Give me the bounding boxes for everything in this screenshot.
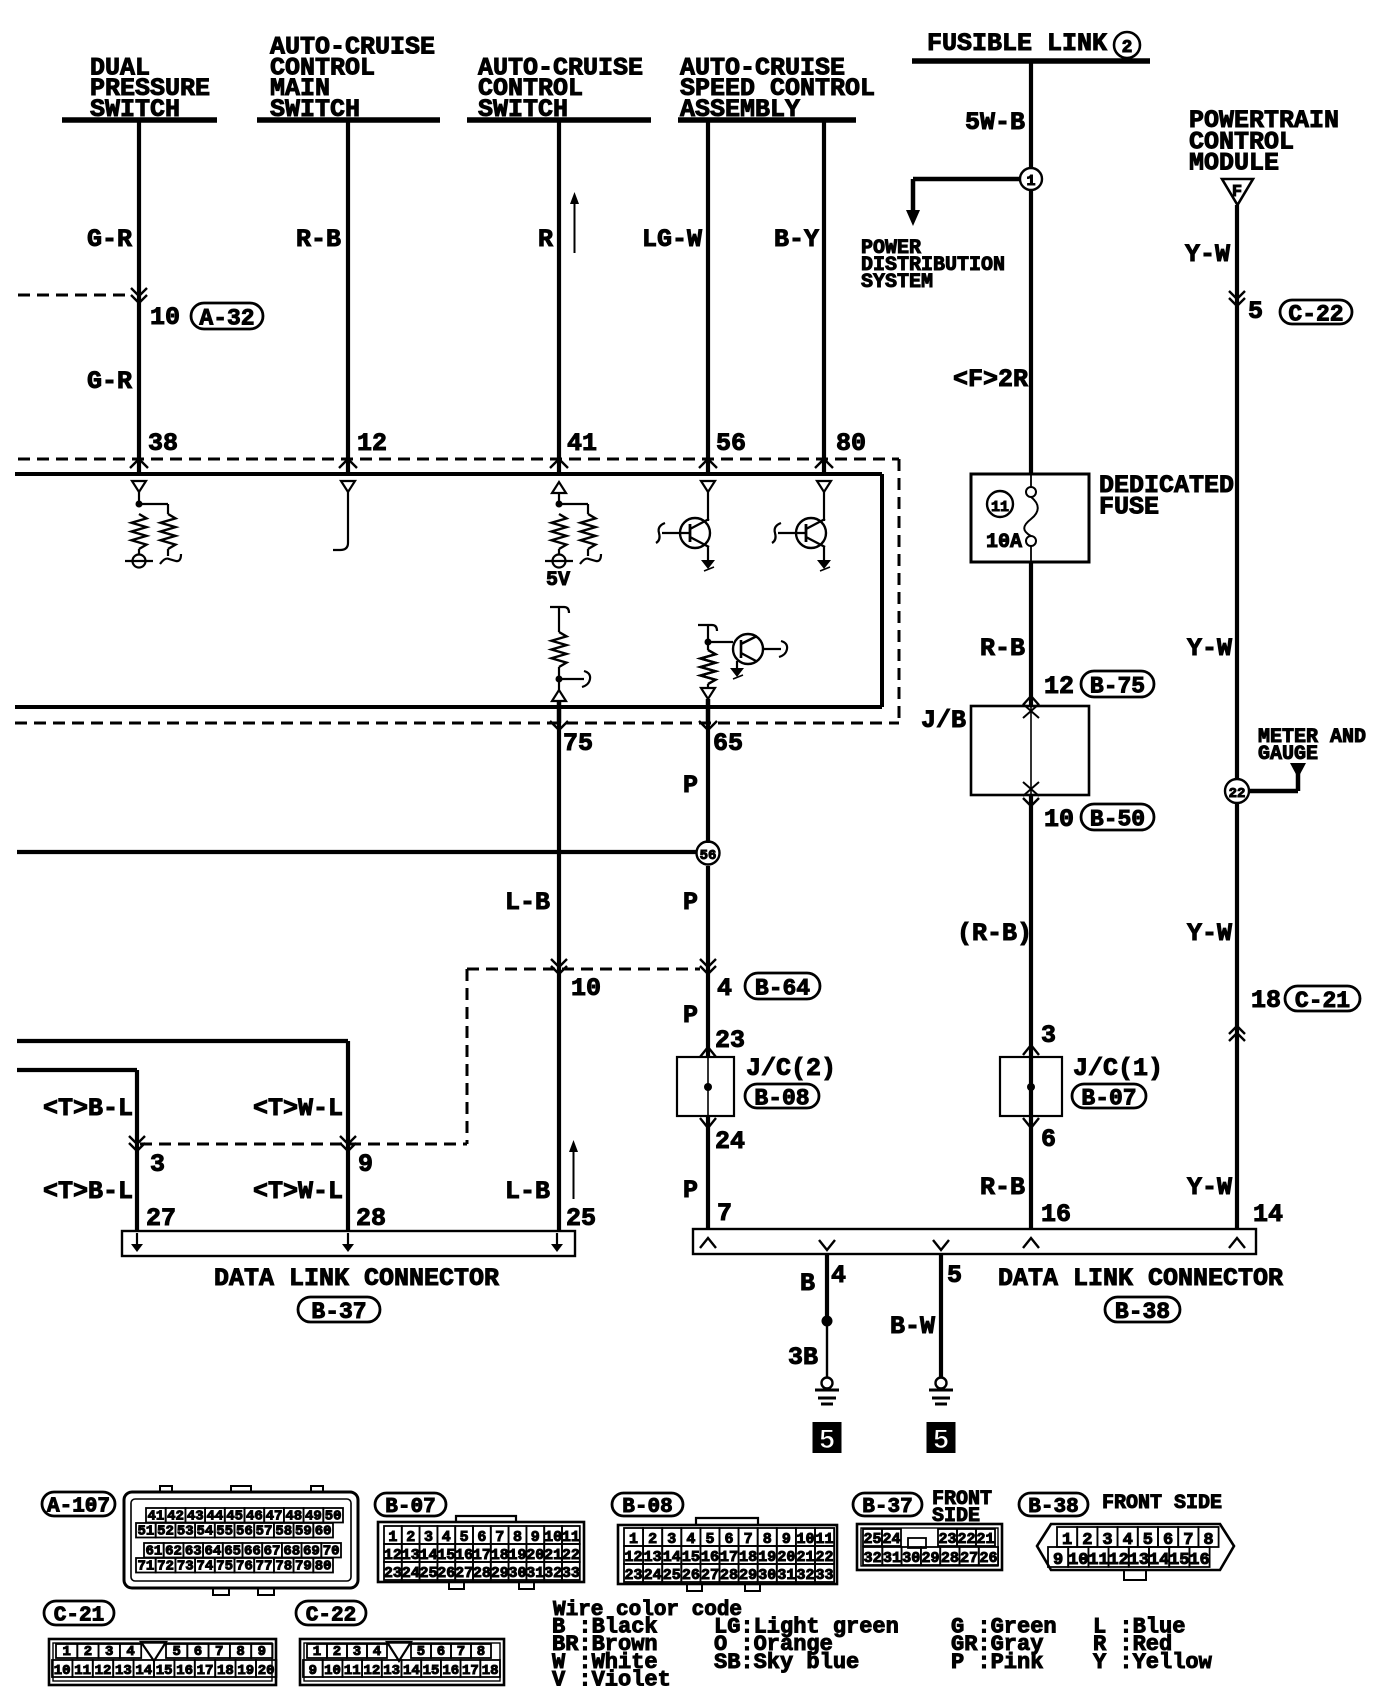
- svg-text:5V: 5V: [546, 569, 570, 592]
- svg-text:26: 26: [979, 1550, 997, 1567]
- svg-text:28: 28: [720, 1567, 738, 1584]
- svg-text:32: 32: [864, 1550, 882, 1567]
- svg-text:B-75: B-75: [1090, 673, 1145, 699]
- svg-text:15: 15: [1169, 1551, 1189, 1570]
- svg-text:71: 71: [137, 1559, 154, 1575]
- svg-text:80: 80: [315, 1559, 332, 1575]
- svg-text:A-32: A-32: [199, 305, 254, 331]
- svg-text:5W-B: 5W-B: [965, 108, 1025, 137]
- svg-text:R-B: R-B: [980, 1173, 1025, 1202]
- svg-text:28: 28: [473, 1565, 491, 1582]
- svg-text:<T>B-L: <T>B-L: [43, 1177, 133, 1206]
- svg-text:25: 25: [419, 1565, 437, 1582]
- svg-text:B-W: B-W: [890, 1312, 935, 1341]
- svg-text:19: 19: [237, 1663, 254, 1679]
- svg-text:3: 3: [1041, 1021, 1056, 1050]
- svg-text:B-64: B-64: [755, 975, 810, 1001]
- svg-text:20: 20: [258, 1663, 275, 1679]
- svg-text:21: 21: [976, 1531, 994, 1548]
- svg-text:56: 56: [716, 429, 746, 458]
- svg-text:27: 27: [455, 1565, 473, 1582]
- svg-text:52: 52: [157, 1524, 174, 1540]
- svg-text:31: 31: [777, 1567, 795, 1584]
- svg-text:11: 11: [344, 1663, 361, 1679]
- svg-text:15: 15: [156, 1663, 173, 1679]
- svg-text:24: 24: [882, 1531, 900, 1548]
- svg-text:32: 32: [796, 1567, 814, 1584]
- svg-text:12: 12: [95, 1663, 112, 1679]
- svg-text:78: 78: [275, 1559, 292, 1575]
- svg-text:5: 5: [172, 1644, 180, 1660]
- svg-text:28: 28: [356, 1204, 386, 1233]
- svg-text:B-38: B-38: [1115, 1299, 1170, 1325]
- svg-text:14: 14: [135, 1663, 152, 1679]
- svg-text:4: 4: [373, 1644, 381, 1660]
- svg-text:V :Violet: V :Violet: [552, 1668, 671, 1693]
- svg-text:Y-W: Y-W: [1187, 919, 1232, 948]
- svg-text:G-R: G-R: [87, 367, 132, 396]
- svg-text:51: 51: [137, 1524, 154, 1540]
- svg-text:27: 27: [701, 1567, 719, 1584]
- svg-text:14: 14: [1149, 1551, 1169, 1570]
- svg-text:44: 44: [207, 1509, 224, 1525]
- svg-text:31: 31: [883, 1550, 901, 1567]
- svg-text:11: 11: [74, 1663, 91, 1679]
- svg-text:R: R: [538, 225, 553, 254]
- svg-text:R-B: R-B: [980, 634, 1025, 663]
- svg-text:33: 33: [562, 1565, 580, 1582]
- svg-text:6: 6: [1041, 1125, 1056, 1154]
- svg-text:10A: 10A: [986, 531, 1022, 554]
- svg-text:6: 6: [194, 1644, 202, 1660]
- svg-text:(R-B): (R-B): [957, 919, 1032, 948]
- svg-text:50: 50: [325, 1509, 342, 1525]
- svg-text:26: 26: [682, 1567, 700, 1584]
- svg-text:<T>W-L: <T>W-L: [253, 1177, 343, 1206]
- svg-text:28: 28: [941, 1550, 959, 1567]
- svg-text:59: 59: [295, 1524, 312, 1540]
- svg-text:5: 5: [417, 1644, 425, 1660]
- svg-text:23: 23: [384, 1565, 402, 1582]
- svg-text:LG-W: LG-W: [642, 225, 702, 254]
- svg-text:23: 23: [938, 1531, 956, 1548]
- svg-text:MODULE: MODULE: [1189, 149, 1279, 178]
- svg-text:P: P: [683, 1176, 698, 1205]
- svg-text:Y :Yellow: Y :Yellow: [1093, 1650, 1213, 1675]
- svg-text:13: 13: [383, 1663, 400, 1679]
- svg-text:7: 7: [215, 1644, 223, 1660]
- svg-text:B-37: B-37: [311, 1299, 366, 1325]
- svg-text:46: 46: [246, 1509, 263, 1525]
- svg-text:18: 18: [482, 1663, 499, 1679]
- svg-text:30: 30: [758, 1567, 776, 1584]
- svg-text:J/C(1): J/C(1): [1073, 1054, 1163, 1083]
- svg-text:72: 72: [157, 1559, 174, 1575]
- svg-text:GAUGE: GAUGE: [1258, 743, 1318, 766]
- svg-text:73: 73: [177, 1559, 194, 1575]
- svg-text:22: 22: [1229, 786, 1246, 802]
- svg-text:29: 29: [491, 1565, 509, 1582]
- svg-text:11: 11: [991, 499, 1009, 516]
- svg-text:2: 2: [84, 1644, 92, 1660]
- svg-text:70: 70: [323, 1544, 340, 1560]
- svg-text:62: 62: [165, 1544, 182, 1560]
- svg-text:48: 48: [285, 1509, 302, 1525]
- svg-text:16: 16: [176, 1663, 193, 1679]
- svg-text:63: 63: [185, 1544, 202, 1560]
- svg-text:14: 14: [1253, 1200, 1283, 1229]
- svg-text:25: 25: [566, 1204, 596, 1233]
- svg-text:4: 4: [126, 1644, 134, 1660]
- svg-text:5: 5: [947, 1261, 962, 1290]
- svg-text:29: 29: [922, 1550, 940, 1567]
- svg-text:5: 5: [1248, 297, 1263, 326]
- svg-text:10: 10: [54, 1663, 71, 1679]
- svg-text:16: 16: [442, 1663, 459, 1679]
- svg-text:79: 79: [295, 1559, 312, 1575]
- svg-text:1: 1: [1026, 173, 1035, 190]
- svg-text:F: F: [1232, 183, 1242, 202]
- svg-text:Y-W: Y-W: [1187, 634, 1232, 663]
- svg-text:32: 32: [544, 1565, 562, 1582]
- svg-text:24: 24: [715, 1127, 745, 1156]
- svg-text:42: 42: [167, 1509, 184, 1525]
- svg-text:2: 2: [1122, 38, 1133, 58]
- svg-text:SB:Sky blue: SB:Sky blue: [714, 1650, 859, 1675]
- svg-text:B-07: B-07: [1081, 1085, 1136, 1111]
- svg-text:54: 54: [197, 1524, 214, 1540]
- svg-text:12: 12: [1108, 1551, 1128, 1570]
- svg-text:SYSTEM: SYSTEM: [861, 271, 933, 294]
- svg-text:3: 3: [105, 1644, 113, 1660]
- svg-text:12: 12: [364, 1663, 381, 1679]
- svg-text:56: 56: [236, 1524, 253, 1540]
- svg-text:10: 10: [571, 974, 601, 1003]
- svg-text:10: 10: [1044, 805, 1074, 834]
- svg-text:<T>B-L: <T>B-L: [43, 1094, 133, 1123]
- svg-text:1: 1: [313, 1644, 321, 1660]
- svg-text:68: 68: [283, 1544, 300, 1560]
- svg-text:25: 25: [663, 1567, 681, 1584]
- svg-text:J/B: J/B: [921, 706, 966, 735]
- svg-text:3B: 3B: [788, 1343, 818, 1372]
- svg-text:FUSIBLE LINK: FUSIBLE LINK: [927, 29, 1107, 58]
- svg-text:16: 16: [1189, 1551, 1209, 1570]
- svg-text:1: 1: [62, 1644, 70, 1660]
- svg-text:5: 5: [933, 1426, 950, 1457]
- svg-text:10: 10: [150, 303, 180, 332]
- svg-text:FUSE: FUSE: [1099, 492, 1159, 521]
- svg-text:26: 26: [437, 1565, 455, 1582]
- svg-text:18: 18: [1251, 986, 1281, 1015]
- svg-text:67: 67: [264, 1544, 281, 1560]
- svg-text:DATA LINK CONNECTOR: DATA LINK CONNECTOR: [998, 1264, 1283, 1293]
- svg-text:10: 10: [324, 1663, 341, 1679]
- svg-text:13: 13: [115, 1663, 132, 1679]
- svg-text:P: P: [683, 1001, 698, 1030]
- svg-text:38: 38: [148, 429, 178, 458]
- svg-text:2: 2: [333, 1644, 341, 1660]
- svg-text:C-21: C-21: [1295, 988, 1350, 1014]
- svg-text:G-R: G-R: [87, 225, 132, 254]
- svg-text:J/C(2): J/C(2): [746, 1054, 836, 1083]
- svg-text:11: 11: [1088, 1551, 1108, 1570]
- svg-text:43: 43: [187, 1509, 204, 1525]
- svg-text:C-21: C-21: [54, 1605, 104, 1628]
- svg-text:41: 41: [567, 429, 597, 458]
- svg-text:23: 23: [625, 1567, 643, 1584]
- svg-text:27: 27: [960, 1550, 978, 1567]
- svg-text:29: 29: [739, 1567, 757, 1584]
- svg-text:22: 22: [957, 1531, 975, 1548]
- svg-text:L-B: L-B: [505, 888, 550, 917]
- svg-text:75: 75: [216, 1559, 233, 1575]
- svg-text:69: 69: [303, 1544, 320, 1560]
- svg-text:FRONT SIDE: FRONT SIDE: [1102, 1492, 1222, 1515]
- svg-text:75: 75: [563, 729, 593, 758]
- svg-text:58: 58: [275, 1524, 292, 1540]
- svg-text:6: 6: [437, 1644, 445, 1660]
- svg-text:45: 45: [226, 1509, 243, 1525]
- svg-text:60: 60: [315, 1524, 332, 1540]
- svg-text:16: 16: [1041, 1200, 1071, 1229]
- svg-text:5: 5: [819, 1426, 836, 1457]
- svg-text:P :Pink: P :Pink: [951, 1650, 1043, 1675]
- svg-text:80: 80: [836, 429, 866, 458]
- svg-text:53: 53: [177, 1524, 194, 1540]
- svg-text:66: 66: [244, 1544, 261, 1560]
- svg-text:Y-W: Y-W: [1185, 240, 1230, 269]
- svg-text:15: 15: [423, 1663, 440, 1679]
- svg-text:B-38: B-38: [1028, 1496, 1078, 1519]
- svg-text:L-B: L-B: [505, 1177, 550, 1206]
- svg-text:9: 9: [258, 1644, 266, 1660]
- svg-text:13: 13: [1129, 1551, 1149, 1570]
- svg-text:64: 64: [205, 1544, 222, 1560]
- svg-text:B-07: B-07: [385, 1496, 435, 1519]
- svg-text:30: 30: [508, 1565, 526, 1582]
- svg-text:47: 47: [266, 1509, 283, 1525]
- svg-text:9: 9: [309, 1663, 317, 1679]
- svg-text:<T>W-L: <T>W-L: [253, 1094, 343, 1123]
- svg-text:65: 65: [713, 729, 743, 758]
- svg-text:8: 8: [236, 1644, 244, 1660]
- svg-text:27: 27: [146, 1204, 176, 1233]
- svg-text:A-107: A-107: [47, 1496, 110, 1519]
- svg-text:C-22: C-22: [1288, 301, 1343, 327]
- svg-text:B-08: B-08: [622, 1496, 672, 1519]
- svg-text:9: 9: [358, 1150, 373, 1179]
- svg-text:4: 4: [831, 1261, 846, 1290]
- svg-text:3: 3: [150, 1150, 165, 1179]
- svg-text:23: 23: [715, 1026, 745, 1055]
- svg-text:18: 18: [217, 1663, 234, 1679]
- svg-text:B-50: B-50: [1090, 806, 1145, 832]
- svg-text:B: B: [800, 1269, 815, 1298]
- svg-text:57: 57: [256, 1524, 273, 1540]
- svg-text:<F>2R: <F>2R: [953, 365, 1028, 394]
- svg-text:17: 17: [197, 1663, 214, 1679]
- svg-text:31: 31: [526, 1565, 544, 1582]
- svg-text:41: 41: [147, 1509, 164, 1525]
- svg-text:B-Y: B-Y: [774, 225, 819, 254]
- svg-text:7: 7: [457, 1644, 465, 1660]
- svg-text:25: 25: [863, 1531, 881, 1548]
- svg-text:B-08: B-08: [754, 1085, 809, 1111]
- svg-text:61: 61: [145, 1544, 162, 1560]
- svg-text:DATA LINK CONNECTOR: DATA LINK CONNECTOR: [214, 1264, 499, 1293]
- svg-text:17: 17: [462, 1663, 479, 1679]
- svg-text:4: 4: [717, 974, 732, 1003]
- svg-text:55: 55: [216, 1524, 233, 1540]
- svg-text:7: 7: [717, 1199, 732, 1228]
- svg-text:30: 30: [902, 1550, 920, 1567]
- svg-text:Y-W: Y-W: [1187, 1173, 1232, 1202]
- svg-text:C-22: C-22: [306, 1605, 356, 1628]
- svg-text:74: 74: [197, 1559, 214, 1575]
- svg-text:12: 12: [357, 429, 387, 458]
- svg-text:49: 49: [305, 1509, 322, 1525]
- svg-text:76: 76: [236, 1559, 253, 1575]
- svg-text:P: P: [683, 771, 698, 800]
- svg-text:8: 8: [477, 1644, 485, 1660]
- svg-text:14: 14: [403, 1663, 420, 1679]
- svg-text:56: 56: [700, 848, 717, 864]
- svg-text:65: 65: [224, 1544, 241, 1560]
- svg-text:24: 24: [402, 1565, 420, 1582]
- svg-text:12: 12: [1044, 672, 1074, 701]
- svg-text:P: P: [683, 888, 698, 917]
- svg-text:77: 77: [256, 1559, 273, 1575]
- svg-text:10: 10: [1068, 1551, 1088, 1570]
- svg-text:24: 24: [644, 1567, 662, 1584]
- svg-text:3: 3: [353, 1644, 361, 1660]
- svg-text:33: 33: [816, 1567, 834, 1584]
- svg-text:B-37: B-37: [862, 1496, 912, 1519]
- svg-text:R-B: R-B: [296, 225, 341, 254]
- svg-text:9: 9: [1053, 1551, 1063, 1570]
